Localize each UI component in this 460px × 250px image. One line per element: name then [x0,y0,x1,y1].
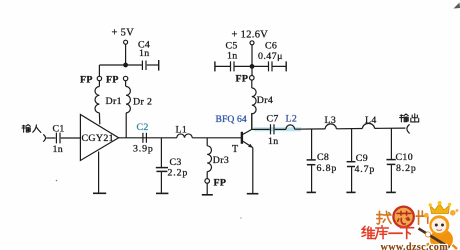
svg-text:BFQ 64: BFQ 64 [216,114,247,125]
op-amp U1 CGY21 [80,115,118,161]
cyan highlight on output line [254,127,302,131]
node junction +12.6V rail [250,65,254,69]
svg-text:Dr 2: Dr 2 [133,97,152,108]
wire +12.6V terminal to rail [251,45,253,67]
choke Dr1 [95,81,122,125]
svg-text:L3: L3 [325,115,337,126]
stray speck 1 [56,180,58,182]
svg-text:Dr4: Dr4 [257,95,273,106]
svg-text:C3: C3 [170,157,182,168]
wire C1 to amplifier [61,137,81,139]
svg-text:1n: 1n [139,48,150,59]
svg-text:C8: C8 [317,152,329,163]
svg-text:FP: FP [106,75,119,86]
wire collector up [251,113,253,129]
inductor L2 [286,114,298,130]
svg-text:FP: FP [214,177,227,188]
svg-text:C1: C1 [53,124,65,135]
wire +5V rail horizontal [99,64,141,66]
feedthrough FP2 [106,75,128,86]
+5V supply label [112,28,135,39]
capacitor C5 [226,41,238,72]
wire emitter down [252,148,254,194]
wire rail to FP4 [251,66,253,75]
ground termination of C4 [158,60,160,71]
+5V terminal [124,40,128,44]
watermark www.dzsc.com [381,242,449,250]
svg-text:0.47μ: 0.47μ [258,51,283,62]
svg-text:www.dzsc.com: www.dzsc.com [381,242,449,250]
wire amplifier output line [119,137,242,139]
ground termination C6 side [285,61,287,71]
output label 输出 [400,114,419,122]
input terminal [43,134,45,141]
feedthrough FP3 [205,177,226,188]
wire +5V terminal to rail [125,44,127,65]
choke Dr3 branch [207,138,229,179]
capacitor C8 branch [307,129,338,192]
transistor Q1 BFQ64 label [216,114,247,125]
svg-text:L2: L2 [286,114,298,125]
corner mark top right [454,3,460,9]
svg-text:+ 5V: + 5V [112,28,135,39]
inductor L4 [363,115,377,129]
ground amplifier [93,152,106,194]
capacitor C10 branch [386,128,416,192]
wire Dr4 to collector node [251,114,253,130]
svg-text:FP: FP [236,73,249,84]
node junction +5V rail [124,63,128,67]
watermark 维库一下 [362,226,414,239]
wire input to C1 [46,137,55,139]
capacitor C1 [53,124,65,155]
svg-text:4.7p: 4.7p [355,164,376,175]
ground C3 [156,192,168,194]
svg-text:1n: 1n [53,144,64,155]
svg-text:C7: C7 [267,113,279,124]
svg-text:1n: 1n [227,51,238,62]
wire rail to FP1 [98,65,100,76]
svg-text:L4: L4 [365,115,377,126]
wire +12.6V rail horizontal [215,65,286,67]
inductor L3 [325,115,337,129]
choke Dr4 [252,80,273,114]
svg-text:2.2p: 2.2p [168,168,189,179]
svg-text:Dr3: Dr3 [213,155,229,166]
capacitor C9 branch [347,129,376,193]
ground termination C5 side [214,61,216,71]
svg-text:L1: L1 [176,125,188,136]
capacitor C3 branch [156,138,188,193]
capacitor C7 [267,113,279,147]
svg-text:C10: C10 [396,152,414,163]
feedthrough FP1 [80,75,102,86]
watermark 找芯片 logo [377,207,428,227]
svg-text:T: T [232,144,238,155]
+12.6V supply label [232,29,269,40]
+12.6V terminal [250,41,254,45]
capacitor C2 [133,122,154,154]
ground C9 [346,191,355,193]
feedthrough FP4 [236,73,255,84]
watermark mascot [419,201,459,250]
ground C10 [386,191,396,193]
svg-text:3.9p: 3.9p [133,143,154,154]
svg-text:Dr1: Dr1 [106,96,122,107]
transistor Q1 [232,129,253,154]
svg-text:1n: 1n [268,136,279,147]
output terminal [407,124,410,133]
svg-text:C6: C6 [265,41,277,52]
wire collector output line [252,128,406,129]
svg-text:C2: C2 [137,122,149,133]
ground C8 [307,191,316,193]
svg-text:6.8p: 6.8p [317,163,338,174]
svg-text:8.2p: 8.2p [396,163,417,174]
svg-text:C9: C9 [356,153,368,164]
ground emitter [247,193,259,195]
svg-text:FP: FP [80,75,93,86]
capacitor C6 [258,41,283,72]
stray speck 2 [240,217,241,218]
svg-text:+ 12.6V: + 12.6V [232,29,269,40]
inductor L1 [176,125,193,138]
choke Dr2 [126,81,153,138]
ground FP3 [202,183,213,195]
svg-text:CGY21: CGY21 [82,133,114,144]
capacitor C4 [138,40,158,71]
input label 输入 [22,125,41,133]
